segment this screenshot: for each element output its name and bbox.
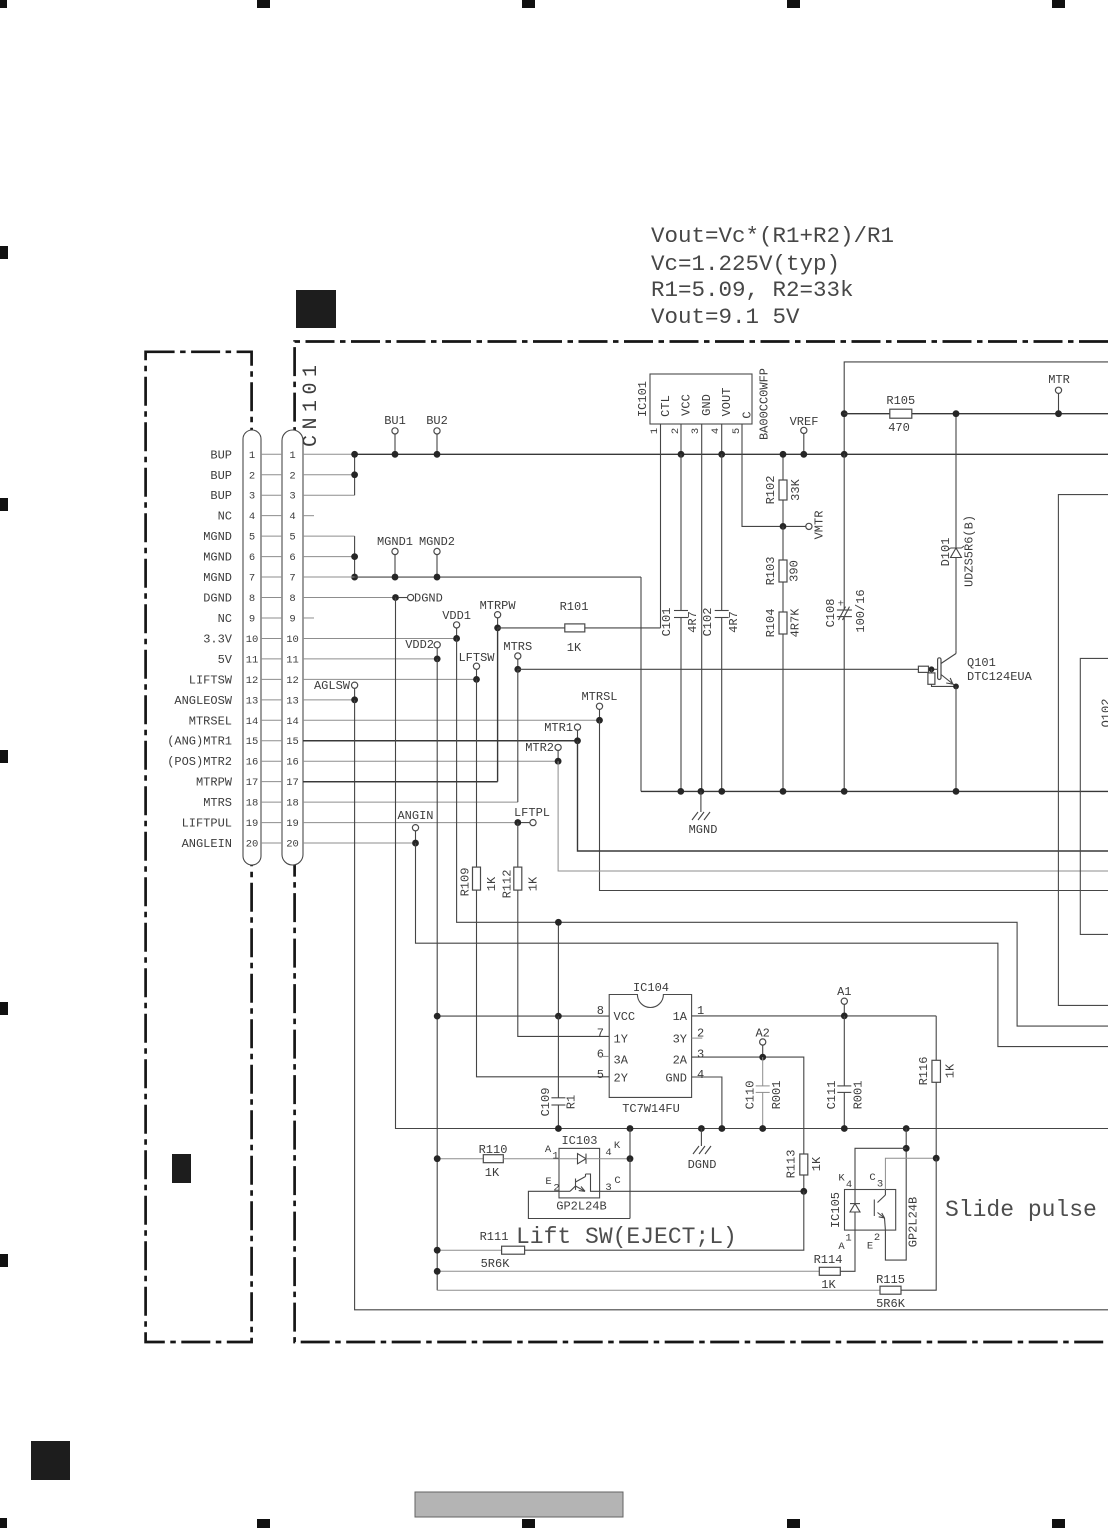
svg-text:11: 11 <box>246 654 259 666</box>
svg-text:R1: R1 <box>565 1095 579 1109</box>
svg-text:R116: R116 <box>917 1057 931 1086</box>
svg-text:Lift SW(EJECT;L): Lift SW(EJECT;L) <box>516 1224 737 1250</box>
svg-text:3: 3 <box>605 1182 611 1194</box>
svg-text:3: 3 <box>249 491 255 503</box>
svg-text:1K: 1K <box>810 1156 824 1171</box>
svg-text:GND: GND <box>665 1072 687 1086</box>
svg-text:MGND: MGND <box>203 530 232 544</box>
wire pin6 MGND <box>303 556 355 558</box>
svg-text:7: 7 <box>597 1027 604 1041</box>
svg-text:1K: 1K <box>485 1166 500 1180</box>
svg-text:NC: NC <box>218 510 232 524</box>
capacitor C101 4R7 <box>660 454 700 791</box>
svg-text:DTC124EUA: DTC124EUA <box>967 670 1033 684</box>
wire pin19 LIFTPUL <box>303 822 518 824</box>
node BU2 flag <box>426 414 448 458</box>
svg-text:(ANG)MTR1: (ANG)MTR1 <box>167 735 232 749</box>
svg-text:BUP: BUP <box>210 469 232 483</box>
wire pin9 NC stub <box>303 617 314 619</box>
svg-text:Vout=Vc*(R1+R2)/R1: Vout=Vc*(R1+R2)/R1 <box>651 223 894 249</box>
svg-text:1: 1 <box>289 450 295 462</box>
svg-text:IC101: IC101 <box>636 381 650 417</box>
resistor R112 1K <box>501 867 541 898</box>
wire IC104 2A line to A2 and R113 <box>692 1057 804 1154</box>
node MGND1 flag <box>377 535 413 580</box>
svg-text:1K: 1K <box>567 641 582 655</box>
wire pin14 MTRSEL <box>303 719 600 721</box>
ground DGND symbol <box>688 1129 717 1173</box>
svg-text:C101: C101 <box>660 608 674 637</box>
node VDD2 flag <box>405 638 440 662</box>
svg-text:3.3V: 3.3V <box>203 632 233 646</box>
svg-text:DGND: DGND <box>203 592 232 606</box>
capacitor C110 R001 <box>744 1057 785 1128</box>
svg-text:MTR2: MTR2 <box>525 741 554 755</box>
svg-text:K: K <box>838 1173 845 1185</box>
wire IC101 pin4 VOUT stub <box>721 424 723 454</box>
svg-text:6: 6 <box>289 552 295 564</box>
node ANGIN flag <box>397 809 433 846</box>
svg-text:4: 4 <box>846 1179 852 1191</box>
node LFTSW flag <box>458 651 495 683</box>
svg-text:4: 4 <box>697 1068 704 1082</box>
capacitor C111 R001 <box>825 1016 866 1129</box>
svg-text:1K: 1K <box>527 876 541 891</box>
svg-text:5: 5 <box>597 1068 604 1082</box>
wire VCC top loop to right edge <box>844 362 1108 454</box>
svg-text:2: 2 <box>670 428 682 434</box>
resistor R103 390 <box>764 526 802 585</box>
svg-text:C110: C110 <box>744 1081 758 1110</box>
svg-text:9: 9 <box>249 613 255 625</box>
svg-text:8: 8 <box>289 593 295 605</box>
svg-text:10: 10 <box>286 634 299 646</box>
svg-text:TC7W14FU: TC7W14FU <box>622 1102 680 1116</box>
svg-text:R104: R104 <box>764 609 778 638</box>
svg-text:MTRSL: MTRSL <box>581 690 617 704</box>
svg-text:DGND: DGND <box>414 592 443 606</box>
svg-text:R001: R001 <box>852 1081 866 1110</box>
node MTRSL flag <box>581 690 617 724</box>
svg-text:12: 12 <box>246 675 259 687</box>
svg-text:1: 1 <box>845 1233 851 1245</box>
svg-text:A: A <box>838 1241 845 1253</box>
connector CN101 pin name labels and pin numbers <box>167 448 299 851</box>
svg-text:2A: 2A <box>673 1054 688 1068</box>
svg-text:3: 3 <box>697 1048 704 1062</box>
wire R116 node down to R115 <box>901 1158 936 1290</box>
svg-text:UDZS5R6(B): UDZS5R6(B) <box>963 515 977 587</box>
resistor R105 470 <box>886 394 915 435</box>
svg-text:1K: 1K <box>485 876 499 891</box>
wire IC104 3A stub <box>599 1055 610 1057</box>
resistor R104 4R7K <box>764 582 803 791</box>
svg-text:C102: C102 <box>701 608 715 637</box>
svg-text:C: C <box>741 411 755 418</box>
svg-text:A1: A1 <box>837 985 851 999</box>
note: regulator output formula <box>651 223 894 330</box>
svg-text:MTR: MTR <box>1048 373 1070 387</box>
wire pin7 MGND to corner x641 <box>303 576 355 578</box>
capacitor C108 100/16 electrolytic <box>824 454 868 791</box>
svg-text:1: 1 <box>552 1151 558 1163</box>
wire MGND drop to ground bus <box>640 577 642 791</box>
node DGND flag <box>392 592 443 606</box>
motor inner box <box>1080 658 1108 934</box>
svg-text:E: E <box>867 1241 873 1253</box>
svg-text:R109: R109 <box>459 868 473 897</box>
wire R109 out to IC104 2Y <box>477 890 610 1077</box>
svg-text:A: A <box>545 1144 552 1156</box>
node BU1 flag <box>384 414 406 458</box>
svg-text:3: 3 <box>289 491 295 503</box>
svg-text:Slide pulse: Slide pulse <box>945 1197 1097 1223</box>
svg-text:MGND: MGND <box>689 823 718 837</box>
svg-text:ANGIN: ANGIN <box>397 809 433 823</box>
wire IC104 1A line to A1 <box>692 1015 937 1017</box>
svg-text:R112: R112 <box>501 870 515 899</box>
node A2 flag <box>755 1027 769 1061</box>
svg-text:AGLSW: AGLSW <box>314 679 351 693</box>
svg-text:VMTR: VMTR <box>812 511 826 540</box>
svg-text:13: 13 <box>286 695 299 707</box>
wire pin1 BUP bus to right edge <box>303 453 355 455</box>
svg-text:R105: R105 <box>886 394 915 408</box>
wire pin8 DGND <box>303 597 396 599</box>
svg-text:C108: C108 <box>824 599 838 628</box>
IC105 internal LED vertical <box>850 1190 860 1231</box>
svg-text:2: 2 <box>553 1183 559 1195</box>
svg-text:LIFTSW: LIFTSW <box>189 673 233 687</box>
wire pin20 ANGLEIN <box>303 842 416 844</box>
connector CN101 <box>243 359 323 865</box>
svg-text:BU1: BU1 <box>384 414 406 428</box>
svg-text:VCC: VCC <box>614 1010 636 1024</box>
svg-text:1A: 1A <box>673 1010 688 1024</box>
svg-text:GND: GND <box>700 394 714 416</box>
wire pin2 BUP <box>303 474 355 476</box>
svg-text:33K: 33K <box>789 478 803 500</box>
wire IC103 E loop <box>528 1191 630 1218</box>
logic IC104 TC7W14FU <box>609 981 691 1116</box>
node AGLSW flag <box>314 679 358 703</box>
svg-text:K: K <box>614 1140 621 1152</box>
IC103 internal phototransistor <box>559 1174 600 1191</box>
svg-text:5R6K: 5R6K <box>876 1297 906 1311</box>
svg-text:10: 10 <box>246 634 259 646</box>
wire IC103 K C tie to digital ground branch <box>629 1129 631 1159</box>
wire BUP tie vertical <box>354 454 356 495</box>
svg-text:+: + <box>838 599 844 611</box>
svg-text:MGND: MGND <box>203 551 232 565</box>
svg-text:ANGLEOSW: ANGLEOSW <box>174 694 232 708</box>
capacitor C102 4R7 <box>701 454 741 791</box>
wire pin10 3.3V <box>303 637 457 639</box>
svg-text:IC104: IC104 <box>633 981 669 995</box>
wire IC101 pin2 VCC stub <box>680 424 682 454</box>
svg-text:20: 20 <box>246 839 259 851</box>
wire pin16 MTR2 <box>303 760 558 762</box>
svg-text:4R7: 4R7 <box>686 611 700 633</box>
left mechanism dash-dot boundary box <box>146 352 252 1342</box>
optocoupler IC103 GP2L24B <box>545 1134 621 1214</box>
mechanism unit box right <box>1058 495 1108 1006</box>
svg-text:MTRS: MTRS <box>503 640 532 654</box>
svg-text:MGND2: MGND2 <box>419 535 455 549</box>
svg-text:GP2L24B: GP2L24B <box>556 1200 606 1214</box>
svg-text:5: 5 <box>249 532 255 544</box>
node A1 flag <box>837 985 851 1019</box>
svg-text:1K: 1K <box>944 1063 958 1078</box>
svg-text:CTL: CTL <box>659 395 673 417</box>
wire DGND branch to IC105 K and E <box>885 1129 906 1261</box>
resistor R110 1K <box>434 1143 559 1180</box>
wire net AGLSW vertical run and bottom return <box>355 700 1108 1310</box>
svg-text:2Y: 2Y <box>614 1072 628 1086</box>
svg-text:BU2: BU2 <box>426 414 448 428</box>
svg-text:Q102: Q102 <box>1100 699 1108 728</box>
IC104 pin numbers <box>597 1004 704 1082</box>
svg-text:NC: NC <box>218 612 232 626</box>
wire IC101 pin3 GND run to MGND bus <box>701 424 703 791</box>
svg-text:MTRPW: MTRPW <box>196 776 233 790</box>
svg-text:VOUT: VOUT <box>720 388 734 417</box>
svg-text:4R7: 4R7 <box>727 611 741 633</box>
svg-text:C: C <box>614 1175 620 1187</box>
svg-text:C111: C111 <box>825 1081 839 1110</box>
wire IC105 K riser <box>855 1148 906 1189</box>
svg-text:5: 5 <box>289 532 295 544</box>
svg-text:MGND: MGND <box>203 571 232 585</box>
svg-text:14: 14 <box>286 716 299 728</box>
transistor Q101 DTC124EUA digital <box>518 650 1033 791</box>
svg-text:3: 3 <box>690 428 702 434</box>
wire IC104 3Y stub <box>692 1037 703 1039</box>
svg-text:R001: R001 <box>770 1081 784 1110</box>
wire pin5 MGND <box>303 535 355 537</box>
IC101 pin numbers 1-5 <box>649 428 743 434</box>
wire net MTRSL run <box>600 720 1108 890</box>
resistor R109 1K <box>459 867 500 896</box>
wire pin18 MTRS <box>303 801 518 803</box>
wire net MTR2 run <box>558 761 1108 871</box>
node MTR1 flag <box>544 721 581 744</box>
svg-text:Vc=1.225V(typ): Vc=1.225V(typ) <box>651 251 840 277</box>
wire IC104 GND to digital ground bus <box>692 1077 722 1129</box>
svg-text:R1=5.09, R2=33k: R1=5.09, R2=33k <box>651 277 854 303</box>
wire VDD1 branch to IC104 VCC <box>557 922 559 1016</box>
diode D101 UDZS5R6(B) zener <box>939 410 977 650</box>
svg-text:R101: R101 <box>560 600 589 614</box>
svg-text:2: 2 <box>249 470 255 482</box>
svg-text:1: 1 <box>649 428 661 434</box>
IC105 internal phototransistor vertical <box>874 1190 885 1231</box>
wire IC101 pin5 C to VMTR line <box>742 424 783 526</box>
svg-text:19: 19 <box>286 818 299 830</box>
wire net ANGIN run <box>416 843 1108 1047</box>
node MTR2 flag <box>525 741 561 765</box>
svg-text:5V: 5V <box>218 653 233 667</box>
svg-text:E: E <box>545 1176 551 1188</box>
svg-text:18: 18 <box>246 798 259 810</box>
main unit dash-dot boundary <box>295 342 1108 1343</box>
wire pin17 MTRPW <box>303 781 498 783</box>
svg-text:4R7K: 4R7K <box>789 608 803 638</box>
svg-text:MTRS: MTRS <box>203 796 232 810</box>
wire MGND tie vertical <box>354 536 356 577</box>
wire pin13 ANGLEOSW <box>303 699 355 701</box>
wire IC103 C line to R113 node <box>600 1190 804 1192</box>
svg-text:MTR1: MTR1 <box>544 721 573 735</box>
svg-text:17: 17 <box>286 777 299 789</box>
wire net MTRPW run pin17 up to R101 line <box>303 781 498 783</box>
wire net MTR1 run <box>578 741 1108 851</box>
svg-text:19: 19 <box>246 818 259 830</box>
connector pin link wires between housings <box>261 454 282 843</box>
svg-text:3: 3 <box>877 1179 883 1191</box>
wire R113 bottom to R111 lift sense line <box>525 1191 804 1250</box>
svg-text:MTRPW: MTRPW <box>480 599 517 613</box>
resistor R102 33K <box>764 451 803 527</box>
svg-text:C109: C109 <box>539 1088 553 1117</box>
wire IC104 VCC line <box>437 1015 609 1017</box>
svg-text:BA00CC0WFP: BA00CC0WFP <box>758 368 772 440</box>
wire net VDD1 3.3V run <box>457 638 1108 1026</box>
optocoupler IC105 GP2L24B <box>829 1172 921 1253</box>
node VDD1 flag <box>442 609 471 642</box>
svg-text:VCC: VCC <box>680 394 694 416</box>
wire R112 out to IC104 1Y <box>518 890 609 1036</box>
wire net DGND vertical run to digital ground bus <box>396 598 1108 1129</box>
node LFTPL flag <box>514 806 550 826</box>
svg-text:100/16: 100/16 <box>854 589 868 632</box>
svg-text:R102: R102 <box>764 476 778 505</box>
svg-text:ANGLEIN: ANGLEIN <box>182 837 232 851</box>
IC103 internal LED <box>559 1154 600 1164</box>
svg-text:MTRSEL: MTRSEL <box>189 714 232 728</box>
wire IC105 C riser to R116 node <box>885 1158 936 1189</box>
svg-text:Vout=9.1 5V: Vout=9.1 5V <box>651 304 800 330</box>
svg-text:IC105: IC105 <box>829 1192 843 1228</box>
svg-text:LFTPL: LFTPL <box>514 806 550 820</box>
svg-text:16: 16 <box>286 757 299 769</box>
svg-text:16: 16 <box>246 757 259 769</box>
svg-text:13: 13 <box>246 695 259 707</box>
svg-text:17: 17 <box>246 777 259 789</box>
wire net MTRS run pin18 up to Q101 base line <box>517 669 519 802</box>
svg-text:MGND1: MGND1 <box>377 535 413 549</box>
svg-text:GP2L24B: GP2L24B <box>907 1197 921 1247</box>
svg-text:5: 5 <box>731 428 743 434</box>
ground MGND bus <box>641 790 1108 792</box>
svg-text:1Y: 1Y <box>614 1033 628 1047</box>
svg-text:VDD1: VDD1 <box>442 609 471 623</box>
svg-text:CN101: CN101 <box>300 359 323 447</box>
svg-text:VDD2: VDD2 <box>405 638 434 652</box>
svg-text:4: 4 <box>605 1147 611 1159</box>
svg-text:14: 14 <box>246 716 259 728</box>
resistor R116 1K <box>917 1016 958 1158</box>
svg-text:12: 12 <box>286 675 299 687</box>
svg-text:2: 2 <box>289 470 295 482</box>
wire net LFTSW run to R109 <box>476 679 478 867</box>
svg-text:3Y: 3Y <box>673 1033 687 1047</box>
svg-text:3A: 3A <box>614 1054 629 1068</box>
svg-text:LIFTPUL: LIFTPUL <box>182 817 232 831</box>
wire R105 motor supply bus <box>844 413 1108 415</box>
svg-text:4: 4 <box>289 511 295 523</box>
wire net LFTPL run pin19 down through R112 <box>517 823 519 868</box>
svg-text:6: 6 <box>597 1048 604 1062</box>
wire pin4 NC stub <box>303 515 314 517</box>
svg-text:15: 15 <box>246 736 259 748</box>
svg-text:(POS)MTR2: (POS)MTR2 <box>167 755 232 769</box>
wire pin3 BUP <box>303 494 355 496</box>
svg-text:15: 15 <box>286 736 299 748</box>
svg-text:390: 390 <box>788 560 802 582</box>
wire pin11 5V <box>303 658 437 660</box>
resistor R111 5R6K <box>434 1230 525 1271</box>
svg-text:4: 4 <box>710 428 722 434</box>
svg-text:R114: R114 <box>814 1253 843 1267</box>
svg-text:20: 20 <box>286 839 299 851</box>
wire R114 to IC105 A <box>840 1230 855 1271</box>
op-amp/regulator IC101 BA00CC0WFP <box>636 374 755 424</box>
svg-text:BUP: BUP <box>210 489 232 503</box>
svg-text:11: 11 <box>286 654 299 666</box>
wire pin12 LIFTSW <box>303 678 477 680</box>
capacitor C109 R1 <box>539 1016 579 1128</box>
resistor R101 1K <box>498 600 661 655</box>
svg-text:5R6K: 5R6K <box>481 1257 511 1271</box>
svg-text:R115: R115 <box>876 1273 905 1287</box>
node VMTR flag <box>780 511 827 540</box>
svg-text:7: 7 <box>289 573 295 585</box>
svg-text:R111: R111 <box>480 1230 509 1244</box>
svg-text:C: C <box>869 1172 875 1184</box>
resistor R114 1K <box>434 1253 843 1292</box>
wire pin15 MTR1 <box>303 740 578 742</box>
svg-text:Q101: Q101 <box>967 656 996 670</box>
svg-text:R103: R103 <box>764 557 778 586</box>
svg-text:18: 18 <box>286 798 299 810</box>
node MTRS flag <box>503 640 532 673</box>
resistor R113 1K <box>785 1150 825 1195</box>
resistor R115 5R6K <box>437 1273 905 1311</box>
svg-text:R113: R113 <box>785 1150 799 1179</box>
svg-text:4: 4 <box>249 511 255 523</box>
wire IC101 pin1 CTL riser to R101 line <box>660 424 662 628</box>
svg-text:DGND: DGND <box>688 1158 717 1172</box>
node MTRPW flag <box>480 599 517 631</box>
junction dots digital ground bus <box>555 1125 562 1132</box>
wire net VDD2 5V vertical run <box>436 659 438 1290</box>
svg-text:9: 9 <box>289 613 295 625</box>
ground MGND symbol <box>689 791 718 837</box>
node MGND2 flag <box>419 535 455 580</box>
svg-text:D101: D101 <box>939 538 953 567</box>
svg-text:6: 6 <box>249 552 255 564</box>
svg-text:7: 7 <box>249 573 255 585</box>
svg-text:BUP: BUP <box>210 448 232 462</box>
svg-text:2: 2 <box>874 1232 880 1244</box>
svg-text:470: 470 <box>888 421 910 435</box>
node MTR flag <box>1048 373 1070 417</box>
node VREF flag <box>790 415 819 458</box>
svg-text:IC103: IC103 <box>561 1134 597 1148</box>
svg-text:1: 1 <box>249 450 255 462</box>
svg-text:8: 8 <box>249 593 255 605</box>
